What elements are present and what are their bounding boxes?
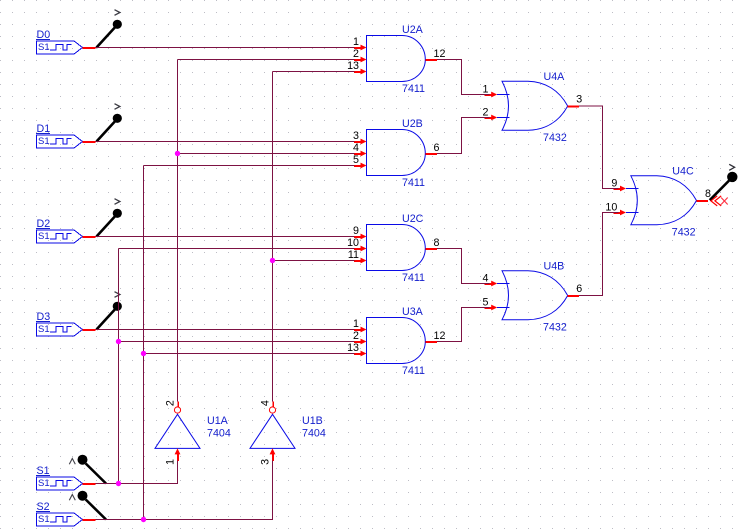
junction S2n tap at U2C pin11 — [270, 258, 275, 263]
wire S1n to U2B pin4 — [178, 153, 355, 155]
svg-text:5: 5 — [353, 154, 359, 166]
unconnected pin X marker — [711, 196, 728, 206]
wire D3 to U3A pin1 — [96, 329, 355, 331]
U2C output pin 8 — [425, 237, 439, 249]
svg-text:5: 5 — [483, 297, 489, 309]
wire S2 row to U1B input — [96, 460, 273, 519]
U1A output pin 2 — [165, 400, 179, 407]
svg-text:1: 1 — [353, 36, 359, 48]
wire U1A output S1n vertical — [177, 60, 179, 402]
svg-text:U4B: U4B — [544, 260, 565, 272]
svg-text:U2B: U2B — [402, 118, 423, 130]
switch lever D0 — [97, 10, 122, 48]
svg-text:2: 2 — [165, 400, 177, 406]
svg-text:1: 1 — [165, 459, 177, 465]
wire S2n to U2C pin11 — [273, 260, 355, 262]
U4A input pins 1/2 — [483, 84, 498, 121]
wire U2A out to U4A pin1 — [437, 60, 490, 95]
svg-text:3: 3 — [353, 130, 359, 142]
svg-text:10: 10 — [347, 237, 359, 249]
U4B input pins 4/5 — [483, 273, 498, 311]
svg-text:11: 11 — [348, 249, 359, 261]
AND gate U2B — [367, 118, 426, 175]
U2A output pin 12 — [425, 48, 445, 60]
svg-text:6: 6 — [434, 142, 440, 154]
svg-text:7432: 7432 — [543, 132, 567, 144]
wire U2C out to U4B pin4 — [437, 249, 490, 284]
U4C input pins 9/10 — [605, 178, 626, 216]
input connector D3 — [36, 311, 96, 336]
AND gate U2A — [367, 24, 426, 81]
svg-text:U4A: U4A — [544, 71, 566, 83]
svg-text:7411: 7411 — [402, 365, 425, 377]
AND gate U2C — [367, 213, 426, 270]
svg-text:2: 2 — [353, 48, 359, 60]
U2B output pin 6 — [425, 142, 439, 154]
junction S2 tap on S2 row — [141, 517, 146, 522]
U1B value 7404 — [302, 428, 326, 440]
wire S2 vertical — [143, 166, 145, 520]
wire S1 row to U1A input — [96, 460, 178, 483]
svg-text:1: 1 — [353, 318, 359, 330]
svg-text:3: 3 — [260, 459, 272, 465]
wire D0 to U2A pin1 — [96, 47, 355, 49]
svg-text:2: 2 — [483, 107, 489, 119]
wire S1 to U3A pin2 — [119, 341, 355, 343]
U1A input pin 1 — [165, 448, 181, 465]
wire U2B out to U4A pin2 — [437, 118, 490, 154]
wire S1 vertical — [118, 249, 120, 484]
U4C output pin 8 — [697, 188, 712, 201]
inverter U1A — [155, 407, 229, 449]
junction S1 tap at U3A pin2 — [116, 339, 121, 344]
wire U4A out to U4C pin9 — [579, 106, 619, 189]
svg-text:4: 4 — [483, 273, 489, 285]
svg-text:U3A: U3A — [402, 306, 424, 318]
svg-text:S1: S1 — [38, 136, 50, 147]
svg-text:7404: 7404 — [302, 428, 326, 440]
OR gate U4B — [497, 260, 568, 320]
wire D2 to U2C pin9 — [96, 236, 355, 238]
input connector S1 — [36, 465, 96, 490]
U4A value 7432 — [543, 132, 567, 144]
svg-text:S1: S1 — [38, 42, 50, 53]
U1B input pin 3 — [260, 448, 276, 465]
wire S2 to U3A pin13 — [144, 353, 355, 355]
input connector D2 — [36, 218, 96, 243]
svg-text:S1: S1 — [38, 231, 50, 242]
wire D1 to U2B pin3 — [96, 141, 355, 143]
svg-text:9: 9 — [353, 225, 359, 237]
svg-text:U4C: U4C — [672, 165, 694, 177]
input connector D0 — [36, 29, 96, 54]
switch lever S2 — [69, 491, 106, 520]
U2B input pins 3/4/5 — [353, 130, 366, 168]
svg-text:7411: 7411 — [402, 272, 425, 284]
U4C value 7432 — [672, 227, 696, 239]
svg-text:3: 3 — [576, 94, 582, 106]
wire S2n to U2A pin13 — [273, 71, 355, 73]
svg-text:7432: 7432 — [672, 227, 696, 239]
wire S1 to U2C pin10 — [119, 248, 355, 250]
output probe switch lever — [710, 164, 738, 200]
U4B value 7432 — [543, 322, 567, 334]
OR gate U4C — [626, 165, 697, 225]
U2C input pins 9/10/11 — [347, 225, 366, 263]
svg-text:8: 8 — [434, 237, 440, 249]
svg-text:12: 12 — [434, 330, 446, 342]
U3A output pin 12 — [425, 330, 445, 342]
svg-text:1: 1 — [483, 84, 489, 96]
switch lever S1 — [69, 455, 106, 484]
svg-text:7404: 7404 — [207, 428, 231, 440]
input connector S2 — [36, 501, 96, 526]
svg-text:7432: 7432 — [543, 322, 567, 334]
svg-text:U2A: U2A — [402, 24, 424, 36]
U4B output pin 6 — [568, 283, 583, 296]
switch lever D2 — [97, 199, 122, 237]
inverter U1B — [250, 407, 323, 449]
U3A input pins 1/2/13 — [347, 318, 366, 356]
U2C value 7411 — [402, 272, 425, 284]
svg-text:7411: 7411 — [402, 177, 425, 189]
wire U4B out to U4C pin10 — [579, 213, 619, 296]
U2A value 7411 — [402, 83, 425, 95]
svg-text:2: 2 — [353, 330, 359, 342]
svg-text:S1: S1 — [38, 478, 50, 489]
wire U3A out to U4B pin5 — [437, 308, 490, 342]
input connector D1 — [36, 123, 96, 148]
svg-text:13: 13 — [347, 342, 359, 354]
junction S2 tap at U3A pin13 — [141, 351, 146, 356]
svg-text:4: 4 — [260, 400, 272, 406]
U4A output pin 3 — [568, 94, 583, 107]
switch lever D3 — [97, 292, 122, 330]
svg-text:U2C: U2C — [402, 213, 424, 225]
junction S1 tap on S1 row — [116, 481, 121, 486]
AND gate U3A — [367, 306, 426, 363]
OR gate U4A — [497, 71, 568, 131]
junction S1n tap at U2B pin4 — [175, 151, 180, 156]
svg-text:10: 10 — [605, 202, 617, 214]
U1B output pin 4 — [260, 400, 274, 407]
svg-text:4: 4 — [353, 142, 359, 154]
svg-text:S1: S1 — [38, 324, 50, 335]
switch lever D1 — [97, 104, 122, 142]
wire S2 to U2B pin5 — [144, 165, 355, 167]
svg-text:S1: S1 — [38, 514, 50, 525]
U2A input pins 1/2/13 — [347, 36, 366, 74]
svg-text:U1B: U1B — [302, 415, 323, 427]
U3A value 7411 — [402, 365, 425, 377]
svg-text:7411: 7411 — [402, 83, 425, 95]
svg-text:13: 13 — [347, 60, 359, 72]
U2B value 7411 — [402, 177, 425, 189]
svg-text:U1A: U1A — [207, 415, 229, 427]
svg-text:6: 6 — [576, 283, 582, 295]
wire U1B output S2n vertical — [272, 72, 274, 402]
svg-text:9: 9 — [611, 178, 617, 190]
wire S1n to U2A pin2 — [178, 59, 355, 61]
U1A value 7404 — [207, 428, 231, 440]
svg-text:12: 12 — [434, 48, 446, 60]
